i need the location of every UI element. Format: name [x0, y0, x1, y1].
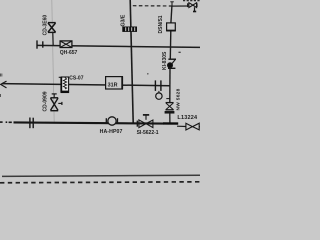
component box 31R on H3	[106, 76, 123, 89]
cut-off text at top edge	[183, 0, 200, 2]
component DSN/S1 square	[166, 23, 176, 31]
valve CD-3E60 (vertical globe valve)	[48, 23, 56, 33]
svg-text:QH-657: QH-657	[60, 50, 78, 56]
wire thin instrument line through valves	[52, 0, 54, 123]
component KI-830S ball check	[168, 59, 177, 68]
wire vertical line V3 (G3/E riser)	[130, 0, 133, 123]
wire H4 bottom main line	[14, 122, 164, 123]
tiny dash mark	[179, 52, 181, 53]
wire H4 bottom main line dash-dot start	[0, 121, 12, 123]
valve bowtie bottom-right	[186, 123, 199, 130]
valve top-right control valve	[188, 3, 197, 12]
arrow at left end of H3	[1, 81, 7, 88]
wire vertical line V4 (right riser)	[171, 6, 172, 23]
svg-text:CD-0909: CD-0909	[42, 91, 48, 111]
wire short line to right bowtie	[177, 125, 186, 127]
svg-text:CD-3E60: CD-3E60	[42, 15, 48, 36]
svg-text:NW 5628: NW 5628	[175, 88, 181, 110]
wire H4 thick end bar	[163, 122, 178, 125]
inline restrictor G3/E black hatched block	[122, 27, 137, 32]
svg-text:31R: 31R	[108, 83, 118, 89]
wire H3 horizontal line	[2, 84, 170, 86]
border dashed line	[0, 182, 200, 183]
border solid line	[2, 175, 200, 176]
wire H2 horizontal line	[37, 45, 200, 47]
line-break double tick on H4	[29, 118, 31, 129]
svg-text:I: I	[0, 93, 1, 98]
valve QH-657 (crossed-box valve on H2)	[60, 41, 72, 48]
wire solid line H1 to top-right valve	[172, 5, 188, 7]
wire stem below CD-3E60	[52, 33, 54, 46]
wire stub above H1 junction	[171, 2, 173, 6]
check valve NW 5628 on V4	[165, 99, 175, 113]
svg-text:SI-5622-1: SI-5622-1	[137, 130, 159, 136]
tiny dot	[147, 73, 149, 75]
orifice double-bar with drain circle on H3	[155, 80, 162, 99]
svg-text:CS-07: CS-07	[69, 75, 83, 81]
svg-text:G3/E: G3/E	[121, 14, 127, 26]
component CS-07 spring filter	[59, 77, 69, 93]
wire stub right edge	[198, 126, 201, 128]
wire dashed line H1 top	[133, 5, 172, 7]
line-break double tick at H2 start	[36, 40, 38, 48]
svg-text:DSN/S1: DSN/S1	[158, 15, 164, 33]
svg-text:HA-HP07: HA-HP07	[100, 129, 123, 135]
svg-text:KI-830S: KI-830S	[162, 51, 168, 70]
valve CD-0909 (vertical globe valve with stem)	[50, 94, 62, 111]
svg-text:II: II	[0, 73, 3, 78]
instrument circle HA-HP07 on H4	[106, 117, 117, 125]
svg-text:L13224: L13224	[177, 115, 198, 121]
valve SI-5622-1 (bowtie with T handle) on H4	[137, 115, 153, 128]
